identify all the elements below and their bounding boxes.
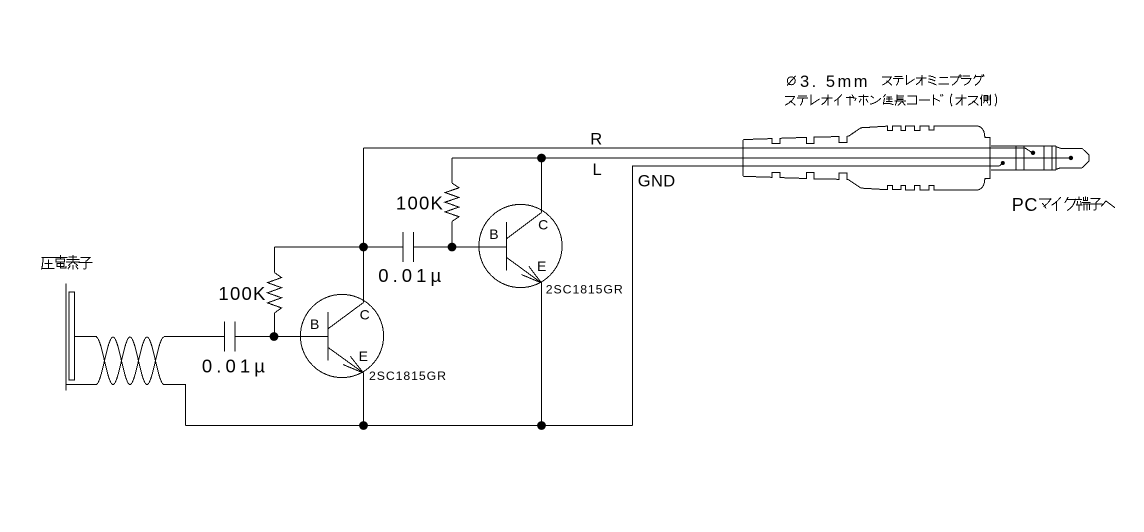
svg-text:C: C [360, 307, 370, 323]
svg-text:0.01µ: 0.01µ [202, 355, 265, 376]
piezo element crystal body [69, 292, 75, 380]
wire: GND line [633, 163, 1003, 425]
resistor R1 100K [268, 247, 282, 337]
node: Q2 base junction dot [448, 243, 457, 252]
node: L line / Q2 collector junction dot [537, 154, 546, 163]
label: PC mic terminal katakana [1039, 197, 1114, 211]
Q1 base bar [327, 312, 329, 361]
svg-text:B: B [310, 316, 319, 332]
node: Q1 collector junction dot [359, 243, 368, 252]
node: Q1 base junction dot [270, 332, 279, 341]
twisted pair cable [96, 337, 164, 385]
node: L contact dot (tip) [1069, 156, 1073, 160]
label: stereo mini plug katakana line 1 [883, 75, 984, 85]
svg-text:100K: 100K [218, 283, 266, 304]
wire: twisted pair top exit to C1 [164, 336, 225, 338]
wire: bottom ground rail [186, 425, 633, 427]
label: stereo earphone extension cord katakana line 2 [786, 94, 997, 106]
plug ring line 4 [1051, 146, 1053, 170]
transistor Q2 2SC1815GR circle [479, 204, 562, 287]
wire: piezo top lead [75, 336, 98, 338]
Q2 collector line [507, 213, 542, 239]
Q2 collector wire [541, 158, 543, 213]
plug ring line 3 [1043, 146, 1045, 170]
wire: L line [452, 157, 1069, 159]
wire: twisted pair bottom exit [164, 385, 186, 426]
node: GND contact dot [1001, 161, 1005, 165]
plug ring line 2 [1023, 146, 1025, 170]
wire: C1 to Q1 base [235, 336, 328, 338]
svg-text:C: C [1024, 195, 1037, 215]
resistor R2 100K [445, 158, 459, 247]
wire: mid row R1 top to C2 [275, 246, 404, 248]
node: R contact dot [1031, 151, 1035, 155]
Q2 base bar [506, 222, 508, 271]
transistor Q1 2SC1815GR circle [300, 294, 383, 377]
svg-text:100K: 100K [396, 193, 444, 214]
svg-text:L: L [593, 161, 602, 179]
svg-text:R: R [590, 130, 602, 148]
capacitor C2 0.01u left plate [402, 232, 404, 262]
Q2 emitter wire [541, 283, 543, 426]
svg-text:E: E [537, 258, 546, 274]
svg-text:2SC1815GR: 2SC1815GR [369, 369, 446, 383]
capacitor C1 0.01u left plate [224, 322, 226, 352]
svg-text:C: C [538, 217, 548, 233]
Q1 collector line [328, 303, 364, 329]
wire: vertical from node to R line [363, 148, 365, 247]
svg-text:GND: GND [638, 172, 676, 190]
Q1 emitter line with arrow [328, 347, 364, 373]
piezo label 圧電素子 [42, 256, 92, 270]
svg-text:P: P [1012, 195, 1024, 215]
capacitor C2 right plate [413, 232, 415, 262]
Q2 emitter line with arrow [507, 257, 542, 283]
Q1 collector wire [363, 247, 365, 303]
wire: piezo bottom lead [66, 384, 97, 386]
label: phi 3.5mm diameter symbol [787, 76, 796, 86]
node: Q2 emitter rail dot [537, 421, 546, 430]
plug molded body outline [743, 126, 990, 190]
capacitor C1 right plate [234, 322, 236, 352]
plug shaft end [1055, 146, 1057, 170]
plug ring line 1 [1015, 146, 1017, 170]
svg-text:E: E [359, 348, 368, 364]
svg-text:2SC1815GR: 2SC1815GR [546, 283, 623, 297]
svg-text:B: B [489, 226, 498, 242]
svg-text:0.01µ: 0.01µ [378, 265, 441, 286]
piezo element (圧電素子) electrode plate [65, 284, 67, 391]
node: Q1 emitter rail dot [359, 421, 368, 430]
wire: C2 to Q2 base [414, 246, 507, 248]
wire: R line [364, 148, 1033, 153]
plug shaft outline [991, 146, 1056, 170]
plug tip [1056, 147, 1089, 170]
Q1 emitter wire [363, 373, 365, 426]
